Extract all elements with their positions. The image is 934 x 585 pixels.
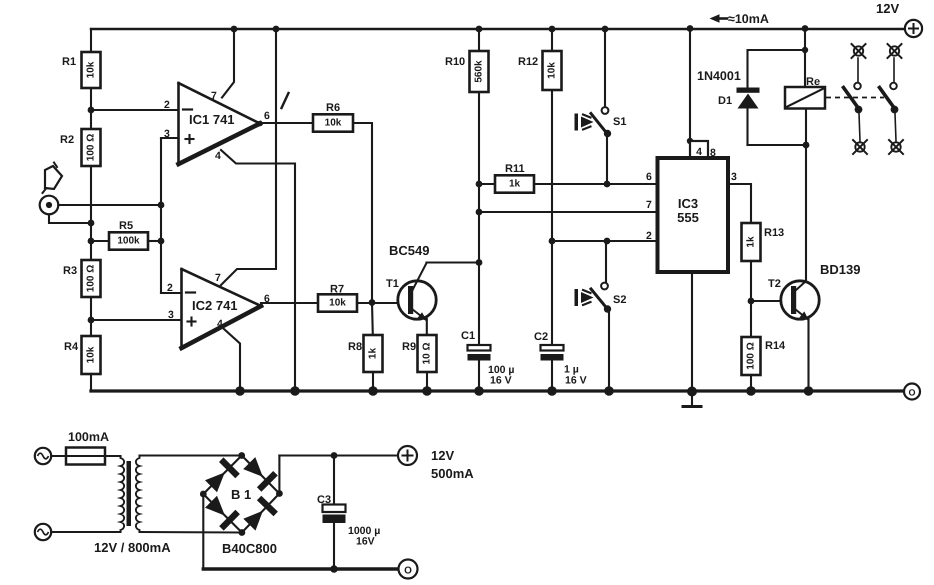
pin 2 label IC1 [164, 99, 170, 111]
wire plus output [279, 454, 397, 456]
wire T1 emitter to R9 [426, 319, 428, 335]
pin 8 label [710, 147, 716, 159]
svg-text:R2: R2 [60, 134, 74, 146]
wire R6 to T1 base node [353, 123, 372, 302]
wire base node to R14 [750, 301, 752, 337]
svg-text:C1: C1 [461, 330, 475, 342]
svg-text:10k: 10k [86, 61, 97, 78]
svg-text:BD139: BD139 [820, 262, 860, 277]
label R11 [505, 163, 525, 175]
label D1 [718, 95, 732, 107]
pin 2 label IC2 [167, 282, 173, 294]
label C2 [534, 331, 548, 343]
wire count slash [282, 93, 289, 108]
svg-text:T2: T2 [768, 278, 781, 290]
wire +12V top rail [91, 28, 905, 30]
bridge diode left-bottom [205, 496, 240, 531]
label C2 value [564, 364, 587, 387]
pin 4 label IC1 [215, 150, 221, 162]
resistor R2 [82, 129, 101, 166]
label 12V output [431, 448, 454, 463]
wire C1 to ground [478, 361, 480, 392]
label R13 [764, 227, 784, 239]
svg-text:IC3: IC3 [678, 196, 698, 211]
wire rail to R1 [90, 29, 92, 52]
junction R11 left [476, 181, 483, 188]
node bridge AC top [238, 452, 245, 459]
label R8 [348, 341, 362, 353]
pin 3 label IC3 [731, 171, 737, 183]
label BD139 [820, 262, 860, 277]
label 1N4001 [697, 69, 741, 83]
junction S2 rail [604, 386, 614, 396]
capacitor C1 [468, 345, 491, 361]
junction C3 top [331, 452, 338, 459]
pin 7 label IC3 [646, 199, 652, 211]
svg-text:10k: 10k [329, 298, 346, 309]
svg-text:2: 2 [646, 230, 652, 242]
svg-text:100mA: 100mA [68, 430, 109, 444]
junction pin7 wire [476, 209, 483, 216]
wire AC L to fuse [51, 455, 66, 457]
svg-text:S1: S1 [613, 116, 626, 128]
svg-text:R9: R9 [402, 341, 416, 353]
wire R9 to ground [426, 372, 428, 391]
wire T2 emitter to ground [807, 319, 809, 391]
svg-text:R1: R1 [62, 56, 76, 68]
wire R10 down to C1 [478, 92, 480, 345]
junction input stub on bus [88, 220, 95, 227]
junction pin2 wire C2 [549, 238, 556, 245]
input terminal [40, 196, 59, 215]
wire IC2 pin2 lead [161, 292, 182, 294]
svg-text:12V / 800mA: 12V / 800mA [94, 540, 171, 555]
AC terminal L [35, 448, 51, 464]
node PSU 0 terminal [399, 560, 418, 579]
pin 4 box [690, 141, 708, 158]
resistor R4 [82, 336, 101, 374]
svg-text:16V: 16V [356, 536, 375, 548]
pin 3 label IC2 [168, 309, 174, 321]
input probe symbol [43, 163, 63, 194]
wire D1 bottom [748, 144, 807, 146]
label 500mA [431, 466, 474, 481]
wire IC1 pin3 lead [161, 137, 179, 139]
wire R7 to T1 base [357, 302, 408, 304]
svg-text:4: 4 [217, 318, 223, 330]
node PSU + terminal [398, 446, 417, 465]
svg-text:1k: 1k [368, 348, 379, 360]
pin 6 label IC3 [646, 171, 652, 183]
wire rail to R12 [551, 29, 553, 51]
label C3 value [348, 525, 380, 548]
wire T2 collector to relay [805, 109, 807, 282]
wire rail to IC3 pins 4 8 [689, 29, 691, 141]
current arrow ≈10mA [710, 12, 769, 26]
wire C2 to ground [551, 361, 553, 392]
wire T2 base [751, 300, 791, 302]
label T2 [768, 278, 781, 290]
junction IC1 pin4 rail [290, 386, 300, 396]
label B40C800 [222, 541, 277, 556]
wire IC2 out to R7 [261, 302, 318, 304]
bridge diode bottom-right [243, 496, 278, 531]
capacitor C3 [323, 456, 346, 570]
wire T1 collector [427, 261, 480, 263]
svg-text:R8: R8 [348, 341, 362, 353]
label R1 [62, 56, 76, 68]
wire R3 to R4 [90, 297, 92, 336]
wire R11 to IC3 pin6 [534, 183, 657, 185]
node D1 relay bottom [803, 142, 810, 149]
node T1 base junction [369, 299, 376, 306]
svg-text:100k: 100k [117, 236, 140, 247]
wire pin2 to S2 [605, 241, 607, 283]
svg-text:B40C800: B40C800 [222, 541, 277, 556]
svg-text:4: 4 [215, 150, 221, 162]
transformer primary winding [121, 456, 125, 532]
node D1 top junction [802, 47, 808, 53]
junction R5 right [158, 238, 165, 245]
svg-text:1k: 1k [746, 236, 757, 248]
wire R5 left lead [91, 240, 109, 242]
node B junction [88, 317, 95, 324]
svg-text:12V: 12V [431, 448, 454, 463]
resistor R8 [364, 335, 383, 372]
wire input to node C [58, 204, 161, 206]
junction C1 rail [474, 386, 484, 396]
svg-text:C2: C2 [534, 331, 548, 343]
wire pin2 row [552, 240, 657, 242]
op-amp IC2 741 [182, 269, 262, 348]
pin 6 label IC1 [264, 110, 270, 122]
label R7 [330, 284, 344, 296]
svg-text:R6: R6 [326, 102, 340, 114]
junction C3 bottom [330, 565, 338, 573]
bridge rectifier B1 outline [203, 456, 279, 533]
wire AC N to primary [51, 531, 120, 533]
junction collector on C1 line [476, 259, 483, 266]
svg-text:6: 6 [264, 110, 270, 122]
svg-text:R7: R7 [330, 284, 344, 296]
wire R4 to ground rail [90, 374, 92, 391]
wire IC2 pin4 to ground [224, 329, 240, 391]
wire R12 down to C2 [551, 90, 553, 345]
node +12V terminal [905, 20, 922, 37]
svg-text:O: O [404, 566, 412, 577]
pin 6 label IC2 [264, 293, 270, 305]
label C3 [317, 494, 331, 506]
svg-text:10k: 10k [86, 346, 97, 363]
label R6 [326, 102, 340, 114]
junction R12 rail [549, 26, 556, 33]
label S2 [613, 294, 626, 306]
wire R13 to base node [750, 261, 752, 301]
resistor R3 [82, 260, 101, 297]
resistor R5 [109, 232, 148, 249]
svg-text:2: 2 [167, 282, 173, 294]
relay Re coil [785, 87, 825, 109]
junction S2 pin2 [604, 238, 611, 245]
node bridge AC bottom [239, 529, 246, 536]
label S1 [613, 116, 626, 128]
svg-text:7: 7 [215, 272, 221, 284]
junction relay rail [802, 25, 809, 32]
svg-text:3: 3 [731, 171, 737, 183]
node T2 base junction [748, 298, 755, 305]
IC3 555 timer [658, 158, 729, 272]
bridge diode top-right [243, 457, 278, 492]
svg-text:10k: 10k [547, 62, 558, 79]
wire IC1 pin3 vertical [160, 138, 162, 293]
junction IC2 pin4 rail [235, 386, 245, 396]
svg-text:16 V: 16 V [565, 375, 587, 387]
svg-text:500mA: 500mA [431, 466, 474, 481]
label BC549 [389, 243, 429, 258]
svg-text:1N4001: 1N4001 [697, 69, 741, 83]
label R12 [518, 56, 538, 68]
junction IC1 pin7 rail [231, 26, 238, 33]
junction R14 rail [746, 386, 756, 396]
label Re [806, 76, 820, 88]
label R14 [765, 340, 786, 352]
wire input stub [49, 214, 91, 223]
svg-text:O: O [908, 388, 915, 398]
svg-text:R11: R11 [505, 163, 525, 175]
label 12V / 800mA [94, 540, 171, 555]
wire pin6 row [479, 183, 495, 185]
label R5 [119, 220, 133, 232]
svg-text:12V: 12V [876, 1, 899, 16]
svg-text:R12: R12 [518, 56, 538, 68]
wire bridge plus up [278, 456, 280, 494]
diode D1 1N4001 [737, 88, 760, 146]
svg-text:Re: Re [806, 76, 820, 88]
wire node A to IC1 pin2 [91, 109, 178, 111]
svg-text:≈10mA: ≈10mA [728, 12, 769, 26]
junction R9 rail [422, 386, 432, 396]
transformer secondary winding [136, 456, 140, 532]
wire R14 to ground [750, 375, 752, 391]
wire IC1 out to R6 [260, 122, 313, 124]
bridge diode left-top [205, 457, 240, 492]
svg-text:R3: R3 [63, 265, 77, 277]
resistor R1 [82, 52, 101, 88]
label B1 [231, 487, 251, 502]
pin 3 label IC1 [164, 128, 170, 140]
wire S1 to pin6 [606, 137, 608, 184]
resistor R10 [470, 51, 489, 92]
svg-text:100 Ω: 100 Ω [86, 134, 97, 161]
label 100mA [68, 430, 109, 444]
wire node B to IC2 pin3 [91, 319, 181, 321]
label R3 [63, 265, 77, 277]
svg-text:3: 3 [168, 309, 174, 321]
junction IC3 ground rail [687, 387, 697, 397]
capacitor C2 [541, 345, 564, 361]
resistor R13 [742, 223, 761, 261]
label R2 [60, 134, 74, 146]
wire fuse to primary [105, 455, 121, 457]
label R10 [445, 56, 465, 68]
node IC1 output [257, 121, 263, 127]
wire relay rail feed [804, 29, 806, 87]
svg-text:1k: 1k [509, 179, 521, 190]
svg-text:555: 555 [677, 210, 699, 225]
svg-text:100 Ω: 100 Ω [746, 342, 757, 369]
junction C2 rail [547, 386, 557, 396]
transformer core [127, 461, 132, 526]
switch S2 [575, 283, 612, 313]
svg-text:R4: R4 [64, 341, 79, 353]
label R4 [64, 341, 79, 353]
pin 7 label IC1 [211, 90, 217, 102]
wire R2 down left bus [90, 166, 92, 260]
resistor R7 [318, 294, 357, 311]
switch S1 [575, 107, 612, 137]
pin 7 label IC2 [215, 272, 221, 284]
junction R5 left on bus [88, 238, 95, 245]
junction S1 pin6 [604, 181, 611, 188]
wire R8 to ground [372, 372, 374, 391]
svg-text:R14: R14 [765, 340, 786, 352]
pin 2 label IC3 [646, 230, 652, 242]
junction R8 rail [368, 386, 378, 396]
wire rail to R10 [478, 29, 480, 51]
wire IC3 ground pin [691, 272, 693, 391]
wire IC1 pin4 to ground [221, 150, 295, 391]
wire IC1 pin7 to rail [222, 29, 234, 98]
node 0V terminal [904, 384, 920, 400]
svg-text:C3: C3 [317, 494, 331, 506]
junction T2 emitter rail [804, 386, 814, 396]
wire S2 to ground [608, 313, 610, 392]
resistor R14 [742, 337, 761, 375]
svg-text:D1: D1 [718, 95, 732, 107]
transistor T1 BC549 [398, 263, 436, 321]
resistor R9 [418, 335, 437, 372]
label 12V supply [876, 1, 899, 16]
wire D1 top [748, 50, 806, 88]
junction R10 rail [476, 26, 483, 33]
node C junction [158, 202, 165, 209]
junction IC3 supply rail [687, 25, 694, 32]
wire IC3 pin3 to R13 [728, 184, 751, 223]
svg-text:10k: 10k [325, 118, 342, 129]
wire rail to S1 [604, 29, 606, 107]
transistor T2 BD139 [781, 281, 819, 320]
svg-text:7: 7 [211, 90, 217, 102]
svg-text:100 Ω: 100 Ω [86, 265, 97, 292]
wire junction to R8 [371, 303, 374, 336]
fuse 100mA [66, 448, 105, 465]
resistor R12 [543, 51, 562, 90]
svg-text:10 Ω: 10 Ω [422, 343, 433, 365]
pin 4 label IC2 [217, 318, 223, 330]
svg-text:S2: S2 [613, 294, 626, 306]
wire secondary bottom to bridge [140, 531, 242, 534]
wire IC2 pin7 to rail [221, 29, 276, 285]
svg-text:IC1 741: IC1 741 [189, 112, 235, 127]
svg-text:16 V: 16 V [490, 375, 512, 387]
wire secondary top to bridge [140, 454, 242, 456]
svg-text:T1: T1 [386, 278, 399, 290]
ground symbol [683, 391, 701, 407]
junction IC2 pin7 rail [273, 26, 280, 33]
junction S1 rail [602, 26, 609, 33]
label C1 value [488, 364, 515, 387]
node bridge plus [276, 490, 283, 497]
svg-text:IC2 741: IC2 741 [192, 298, 238, 313]
node bridge minus [200, 491, 207, 498]
svg-text:2: 2 [164, 99, 170, 111]
svg-text:B 1: B 1 [231, 487, 251, 502]
wire R5 right lead [148, 240, 161, 242]
node pins 4-8 [687, 138, 693, 144]
relay contact B [880, 44, 904, 154]
svg-text:3: 3 [164, 128, 170, 140]
wire R1 to node A [90, 88, 92, 129]
label C1 [461, 330, 475, 342]
svg-text:7: 7 [646, 199, 652, 211]
wire pin7 row [479, 211, 657, 213]
AC terminal N [35, 524, 51, 540]
dashed actuating line [826, 97, 884, 99]
svg-text:R13: R13 [764, 227, 784, 239]
svg-text:R10: R10 [445, 56, 465, 68]
relay contact A [844, 44, 868, 154]
svg-text:BC549: BC549 [389, 243, 429, 258]
svg-text:560k: 560k [474, 60, 485, 83]
op-amp IC1 741 [179, 83, 261, 164]
wire ground rail [91, 389, 904, 392]
resistor R6 [313, 114, 353, 131]
node A junction [88, 107, 95, 114]
label R9 [402, 341, 416, 353]
wire bridge minus down [202, 494, 204, 569]
wire PSU ground rail [203, 567, 398, 570]
label T1 [386, 278, 399, 290]
svg-text:6: 6 [646, 171, 652, 183]
resistor R11 [495, 175, 534, 192]
svg-text:R5: R5 [119, 220, 133, 232]
